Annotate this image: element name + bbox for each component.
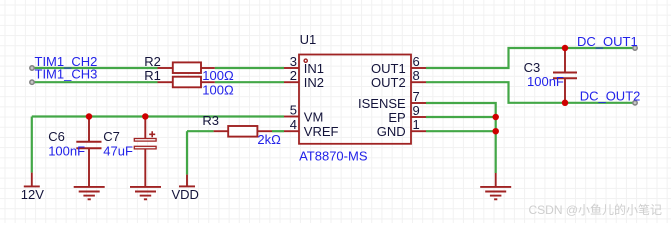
wire EP (426, 116, 496, 118)
wire TIM1_CH3 to R1 (32, 81, 158, 83)
junction dot C3 bottom (562, 100, 569, 107)
pin 4 stub VREF (284, 130, 299, 132)
pin 8 stub OUT2 (411, 81, 426, 83)
svg-text:9: 9 (413, 103, 420, 118)
power port 12V (24, 173, 40, 187)
svg-text:1: 1 (413, 117, 420, 132)
wire VDD riser (186, 131, 188, 174)
wire OUT2 to DC_OUT2 (426, 82, 635, 103)
junction dot C6 tap (86, 113, 93, 120)
wire R1 to IN2 (215, 81, 284, 83)
svg-text:C7: C7 (103, 129, 120, 144)
junction dot C7 tap (142, 113, 149, 120)
svg-text:CSDN @小鱼儿的小笔记: CSDN @小鱼儿的小笔记 (529, 202, 663, 217)
pin 7 stub ISENSE (411, 102, 426, 104)
ground under C7 (130, 187, 161, 199)
svg-text:GND: GND (377, 124, 406, 139)
capacitor C7 (polarized) (134, 117, 156, 188)
svg-text:100nF: 100nF (48, 143, 85, 158)
net port dot DC_OUT1 (633, 46, 637, 50)
svg-text:DC_OUT2: DC_OUT2 (580, 88, 641, 103)
pin 6 stub OUT1 (411, 67, 426, 69)
pin 3 stub IN1 (284, 67, 299, 69)
pin1 indicator circle (304, 59, 307, 62)
svg-text:R2: R2 (144, 54, 161, 69)
pin 2 stub IN2 (284, 81, 299, 83)
svg-text:IN1: IN1 (304, 61, 324, 76)
svg-text:47uF: 47uF (103, 143, 133, 158)
svg-text:VDD: VDD (172, 187, 199, 202)
svg-text:100nF: 100nF (527, 74, 564, 89)
svg-text:12V: 12V (21, 187, 44, 202)
svg-text:U1: U1 (300, 32, 317, 47)
svg-text:5: 5 (290, 103, 297, 118)
svg-text:7: 7 (413, 89, 420, 104)
pin 9 stub EP (411, 116, 426, 118)
svg-text:6: 6 (413, 54, 420, 69)
net port dot TIM1_CH2 (30, 66, 34, 70)
wire 12V riser (31, 117, 33, 173)
resistor R1 (158, 77, 215, 88)
svg-text:AT8870-MS: AT8870-MS (299, 149, 368, 164)
svg-text:DC_OUT1: DC_OUT1 (577, 34, 638, 49)
pin 5 stub VM (284, 116, 299, 118)
junction dot GND (492, 128, 499, 135)
svg-text:R1: R1 (144, 68, 161, 83)
svg-text:VREF: VREF (304, 124, 339, 139)
svg-text:IN2: IN2 (304, 75, 324, 90)
svg-text:OUT1: OUT1 (371, 61, 406, 76)
pin 1 stub GND (411, 130, 426, 132)
svg-text:C6: C6 (48, 129, 65, 144)
svg-text:4: 4 (290, 117, 297, 132)
svg-text:ISENSE: ISENSE (358, 96, 406, 111)
wire OUT1 to DC_OUT1 (426, 48, 635, 68)
svg-text:8: 8 (413, 68, 420, 83)
capacitor C6 (76, 117, 101, 188)
power port VDD (179, 175, 195, 187)
svg-text:2: 2 (290, 68, 297, 83)
junction dot EP (492, 114, 499, 121)
svg-text:VM: VM (304, 109, 324, 124)
ground under chip branch (480, 173, 511, 199)
wire GND (426, 130, 496, 132)
svg-text:OUT2: OUT2 (371, 75, 406, 90)
wire 12V rail to VM (32, 115, 284, 117)
net port dot TIM1_CH3 (30, 80, 34, 84)
ground under C6 (74, 187, 105, 199)
svg-text:100Ω: 100Ω (202, 83, 234, 98)
svg-text:EP: EP (388, 110, 405, 125)
svg-text:3: 3 (290, 54, 297, 69)
wire R2 to IN1 (215, 67, 284, 69)
svg-text:2kΩ: 2kΩ (257, 132, 281, 147)
wire VDD to R3 (187, 130, 214, 132)
ic U1 body (299, 55, 411, 144)
svg-text:C3: C3 (524, 60, 541, 75)
svg-text:R3: R3 (202, 113, 219, 128)
wire R3 to VREF (272, 130, 284, 132)
plus sign of C7 (149, 131, 155, 137)
net port dot DC_OUT2 (633, 101, 637, 105)
wire ISENSE down to ground (426, 103, 496, 173)
resistor R3 (214, 126, 272, 137)
resistor R2 (158, 62, 215, 73)
capacitor C3 (553, 48, 577, 103)
svg-text:TIM1_CH3: TIM1_CH3 (35, 67, 98, 82)
junction dot C3 top (562, 45, 569, 52)
wire TIM1_CH2 to R2 (32, 67, 158, 69)
svg-text:100Ω: 100Ω (202, 68, 234, 83)
